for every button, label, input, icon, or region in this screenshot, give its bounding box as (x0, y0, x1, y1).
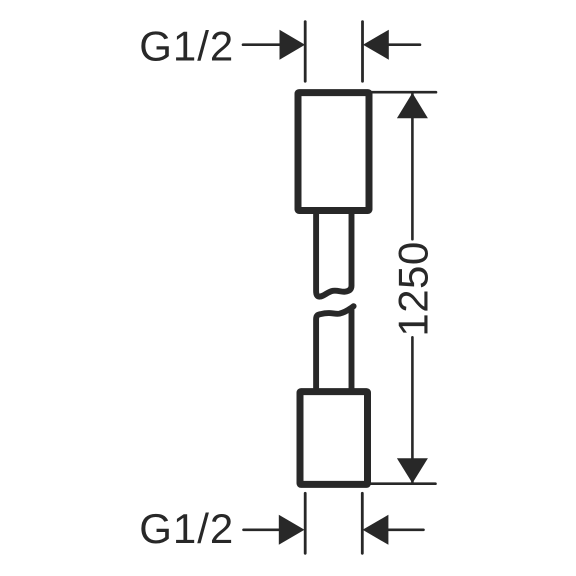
leader line top-right (389, 43, 421, 46)
leader line bottom-right (388, 528, 423, 531)
arrowhead right (bottom) (279, 515, 305, 545)
extension tick bottom-right (361, 493, 364, 553)
arrowhead left (bottom) (363, 515, 389, 545)
leader line top-left (243, 43, 280, 46)
svg-text:1250: 1250 (389, 241, 436, 336)
dimension arrow down (397, 458, 428, 483)
extension line bottom-right of nut (371, 482, 436, 485)
dimension arrow up (397, 93, 428, 118)
top connector nut (298, 93, 369, 211)
extension tick top-right (361, 22, 364, 82)
hose lower segment (316, 306, 354, 389)
leader line bottom-left (244, 528, 280, 531)
bottom connector nut (300, 392, 368, 485)
extension tick top-left (304, 22, 307, 82)
extension tick bottom-left (304, 493, 307, 553)
dimension line upper part (411, 94, 414, 239)
arrowhead right (top) (280, 30, 306, 60)
dimension line lower part (411, 337, 414, 482)
extension line top-right of nut (372, 91, 436, 94)
svg-text:G1/2: G1/2 (139, 505, 234, 552)
svg-text:G1/2: G1/2 (139, 22, 234, 69)
hose upper segment (316, 212, 351, 297)
arrowhead left (top) (363, 30, 389, 60)
